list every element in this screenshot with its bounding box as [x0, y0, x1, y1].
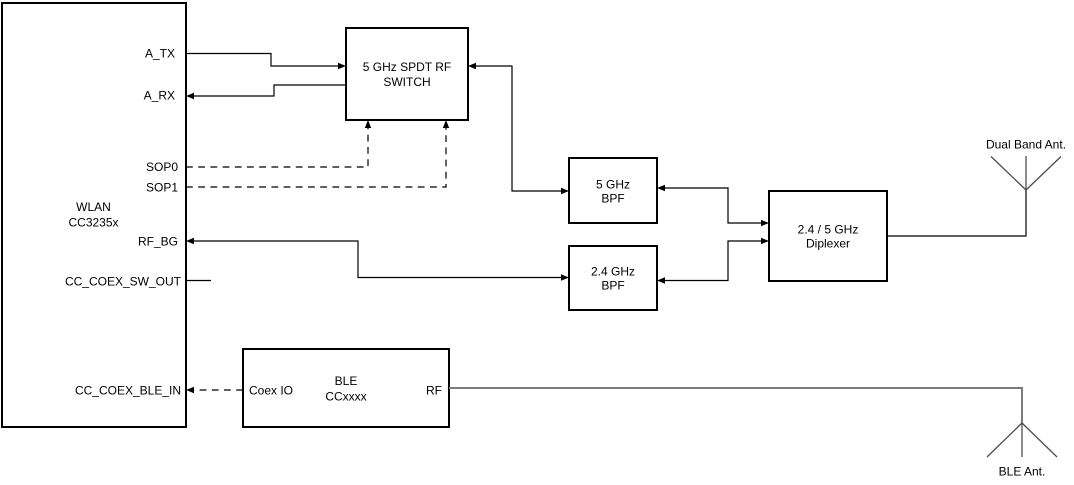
5 GHz SPDT RF SWITCH block U-SW [346, 28, 468, 120]
arrow into WLAN (A_RX) [186, 93, 194, 99]
wire BLE RF to BLE antenna [449, 388, 1022, 423]
svg-text:5 GHz SPDT RF: 5 GHz SPDT RF [363, 60, 451, 74]
wire A_TX from WLAN to switch [186, 54, 340, 67]
wire A_RX from switch to WLAN [192, 85, 346, 96]
svg-text:2.4 GHz: 2.4 GHz [591, 265, 635, 279]
arrow up into switch bottom (SOP1) [443, 120, 449, 128]
svg-text:SOP1: SOP1 [146, 181, 178, 195]
arrow into diplexer lower [761, 238, 769, 244]
BLE CCxxxx block [243, 349, 449, 427]
arrow into 2.4 GHz BPF right [657, 277, 665, 283]
wire switch to 5 GHz BPF (bidirectional) [474, 66, 563, 191]
arrow into 5 GHz BPF left [561, 188, 569, 194]
wire RF_BG from WLAN to 2.4 GHz BPF (bidirectional) [192, 241, 563, 278]
BLE antenna symbol [987, 423, 1057, 457]
svg-text:RF_BG: RF_BG [138, 235, 178, 249]
svg-text:WLAN: WLAN [76, 200, 111, 214]
arrow up into switch bottom (SOP0) [365, 120, 371, 128]
2.4 GHz BPF block [569, 246, 657, 310]
svg-text:CC3235x: CC3235x [68, 216, 118, 230]
svg-text:Coex IO: Coex IO [249, 384, 293, 398]
arrow into 5 GHz BPF right [657, 185, 665, 191]
dashed wire SOP0 [186, 127, 368, 167]
wire 5 GHz BPF to diplexer (bidirectional) [663, 188, 763, 223]
stub wire CC_COEX_SW_OUT [186, 280, 211, 282]
5 GHz BPF block [569, 158, 657, 223]
WLAN CC3235x block [2, 3, 186, 427]
dashed wire SOP1 [186, 127, 446, 187]
svg-text:SWITCH: SWITCH [383, 75, 430, 89]
wire diplexer to dual band antenna [887, 190, 1026, 236]
svg-text:Diplexer: Diplexer [806, 237, 850, 251]
arrow into diplexer upper [761, 220, 769, 226]
arrow into WLAN (RF_BG) [186, 238, 194, 244]
svg-text:A_TX: A_TX [145, 47, 175, 61]
arrow into switch left (A_TX) [338, 63, 346, 69]
svg-text:A_RX: A_RX [144, 89, 175, 103]
wire diplexer to 2.4 GHz BPF (bidirectional) [663, 241, 763, 281]
svg-text:5 GHz: 5 GHz [596, 178, 630, 192]
svg-text:BPF: BPF [601, 192, 624, 206]
dual band antenna symbol [991, 156, 1061, 190]
dashed wire CC_COEX_BLE_IN from BLE Coex IO to WLAN [193, 389, 243, 391]
svg-text:CC_COEX_BLE_IN: CC_COEX_BLE_IN [75, 384, 181, 398]
svg-text:SOP0: SOP0 [146, 160, 178, 174]
svg-text:BLE Ant.: BLE Ant. [999, 465, 1046, 479]
2.4 / 5 GHz Diplexer block [769, 191, 887, 281]
svg-text:BLE: BLE [335, 374, 358, 388]
svg-text:CC_COEX_SW_OUT: CC_COEX_SW_OUT [65, 275, 182, 289]
svg-text:2.4 / 5 GHz: 2.4 / 5 GHz [798, 223, 859, 237]
svg-text:BPF: BPF [601, 279, 624, 293]
svg-text:CCxxxx: CCxxxx [325, 390, 366, 404]
arrow into 2.4 GHz BPF left [561, 274, 569, 280]
svg-text:RF: RF [426, 384, 442, 398]
arrow into switch right [468, 63, 476, 69]
arrow into WLAN (CC_COEX_BLE_IN) [186, 387, 194, 393]
svg-text:Dual Band Ant.: Dual Band Ant. [986, 138, 1066, 152]
